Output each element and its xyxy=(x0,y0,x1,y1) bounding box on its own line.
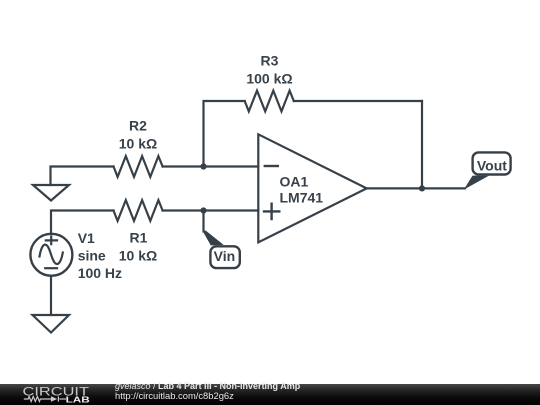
svg-text:Vin: Vin xyxy=(214,248,236,264)
CircuitLab logo xyxy=(0,384,110,405)
footer bar xyxy=(0,384,540,405)
op-amp OA1 inverting input minus sign xyxy=(265,165,278,167)
footer title text xyxy=(115,382,300,391)
svg-text:LAB: LAB xyxy=(66,395,91,404)
voltage source V1 minus sign xyxy=(45,267,57,269)
svg-text:V1: V1 xyxy=(78,230,95,246)
wire: R3 left lead from node A down-corner xyxy=(204,101,245,167)
junction node output xyxy=(419,185,425,191)
svg-text:100 kΩ: 100 kΩ xyxy=(246,71,292,87)
svg-text:10 kΩ: 10 kΩ xyxy=(119,248,157,264)
wire: R1 right lead to op-amp non-inverting input (node B) xyxy=(163,209,259,211)
Vout flag pointer wedge xyxy=(464,176,489,190)
voltage source V1 sine wave xyxy=(40,245,63,264)
op-amp OA1 non-inverting input plus sign xyxy=(264,204,279,219)
Vin flag pointer wedge xyxy=(202,231,223,246)
voltage source V1 plus sign xyxy=(46,237,57,245)
svg-text:R2: R2 xyxy=(129,118,147,134)
wire: upper ground to R2 left lead xyxy=(51,167,114,186)
svg-text:OA1: OA1 xyxy=(280,173,309,189)
ground symbol upper (at R2) xyxy=(33,185,69,201)
wire: Vin tap from node B xyxy=(202,211,204,232)
footer url text xyxy=(115,391,234,400)
svg-text:sine: sine xyxy=(78,248,106,264)
svg-text:100 Hz: 100 Hz xyxy=(78,265,122,281)
svg-text:R1: R1 xyxy=(130,229,148,245)
svg-text:LM741: LM741 xyxy=(280,190,324,206)
svg-text:R3: R3 xyxy=(261,53,279,69)
voltage source V1 circle xyxy=(30,234,72,276)
wire: V1 top lead to R1 left xyxy=(51,211,114,234)
junction node B (non-inverting input net) xyxy=(200,207,206,213)
ground symbol lower (at V1) xyxy=(33,315,70,333)
op-amp OA1 triangle xyxy=(258,134,366,242)
wire: V1 bottom lead to ground xyxy=(50,276,52,315)
wire: feedback vertical down to output node xyxy=(421,101,423,188)
resistor R1 xyxy=(114,200,163,221)
svg-text:10 kΩ: 10 kΩ xyxy=(119,135,157,151)
svg-text:Vout: Vout xyxy=(477,157,507,173)
Vin flag box xyxy=(210,246,239,268)
Vout flag box xyxy=(473,152,511,174)
wire: op-amp output to Vout flag xyxy=(367,187,465,189)
resistor R2 xyxy=(114,156,163,177)
wire: R3 right lead to feedback corner xyxy=(294,100,422,102)
wire: R2 right lead to op-amp inverting input (node A) xyxy=(163,165,259,167)
junction node A (inverting input net) xyxy=(200,163,206,169)
resistor R3 xyxy=(245,91,294,112)
